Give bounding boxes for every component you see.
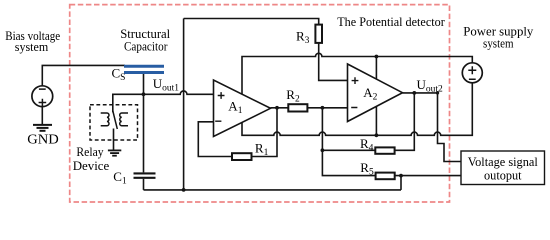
wire: R5 to output box	[395, 175, 462, 177]
output box	[461, 151, 545, 185]
wire: node Uout1 to relay device	[113, 94, 144, 112]
dashed system boundary (red)	[70, 5, 450, 202]
wire: top ground wire to R3	[184, 19, 319, 25]
svg-text:system: system	[483, 35, 514, 50]
capacitor CS (structural, blue plates)	[124, 66, 164, 72]
op-amp A2	[348, 64, 403, 122]
wire: positive supply rail (hop over R3 lead)	[242, 53, 472, 94]
node: R5 / bus	[399, 174, 403, 178]
wire: Cs bottom plate to node Uout1	[143, 74, 145, 95]
resistor R3 (vertical)	[296, 25, 322, 46]
wire: A1 output to R2	[271, 107, 289, 109]
wire: R4 right to A2 output	[395, 93, 415, 150]
voltage source V2 (power supply)	[462, 63, 482, 83]
svg-text:Device: Device	[73, 158, 110, 173]
node: A2 inverting input	[321, 106, 325, 110]
capacitor C1	[134, 173, 156, 177]
voltage source V1 (bias)	[32, 86, 53, 107]
resistor R2	[286, 87, 307, 112]
svg-text:GND: GND	[27, 132, 59, 147]
svg-text:Capacitor: Capacitor	[124, 39, 168, 54]
wire: relay switch to relay ground	[113, 129, 115, 151]
wire: A2 V- pin	[375, 107, 377, 136]
wire: A2 output	[403, 92, 438, 94]
relay device (dashed box, coils and switch)	[90, 105, 138, 140]
svg-text:Relay: Relay	[76, 144, 104, 159]
node: Uout2 branch	[436, 91, 439, 94]
ground (relay device)	[108, 150, 121, 155]
wire: A1 - input to R1	[198, 122, 232, 157]
wire: A2 V+ pin	[375, 57, 377, 80]
relay coil left	[101, 113, 109, 126]
wire: bias source top to structural capacitor	[42, 65, 125, 86]
wire: C1 bottom to ground bus	[143, 179, 145, 190]
wire: negative supply rail with hops	[242, 82, 472, 135]
resistor R1	[232, 140, 269, 160]
wire: R4 left lead	[322, 149, 375, 151]
wire: R3 bottom to A2 + input	[319, 43, 348, 81]
wire: node Uout1 down to C1	[143, 94, 145, 172]
node: V+ rail / A2	[375, 55, 379, 59]
svg-text:outoput: outoput	[484, 168, 522, 183]
wire: ground bus (bottom)	[144, 189, 402, 191]
node: ground bus junction	[182, 188, 186, 192]
node: A1 output	[275, 106, 279, 110]
svg-text:system: system	[15, 39, 49, 54]
node: V- rail / A2	[375, 133, 379, 137]
wire: Uout2 to output box	[438, 93, 462, 162]
op-amp A1	[214, 80, 271, 137]
node: A2 output / R4	[412, 91, 416, 95]
node Uout1	[142, 92, 146, 96]
resistor R4	[360, 136, 395, 154]
wire: R2 to A2 - input	[307, 107, 347, 109]
wire: ground bus up to R5 node	[400, 176, 402, 190]
wire: A2 - input branch down to R5	[322, 108, 375, 176]
wire: R1 to A1 output (feedback)	[252, 108, 278, 157]
relay coil right	[120, 113, 128, 126]
wire: bias source bottom to GND	[41, 106, 43, 124]
node: R4 tap	[321, 148, 325, 152]
wire: ground vertical from top wire to bus	[183, 19, 185, 190]
relay switch blade	[113, 111, 118, 129]
ground GND (bias source)	[33, 125, 52, 131]
svg-text:The Potential detector: The Potential detector	[337, 14, 445, 29]
resistor R5	[360, 160, 394, 179]
wire: node Uout1 to A1 + input (hop over ground line)	[144, 91, 214, 94]
